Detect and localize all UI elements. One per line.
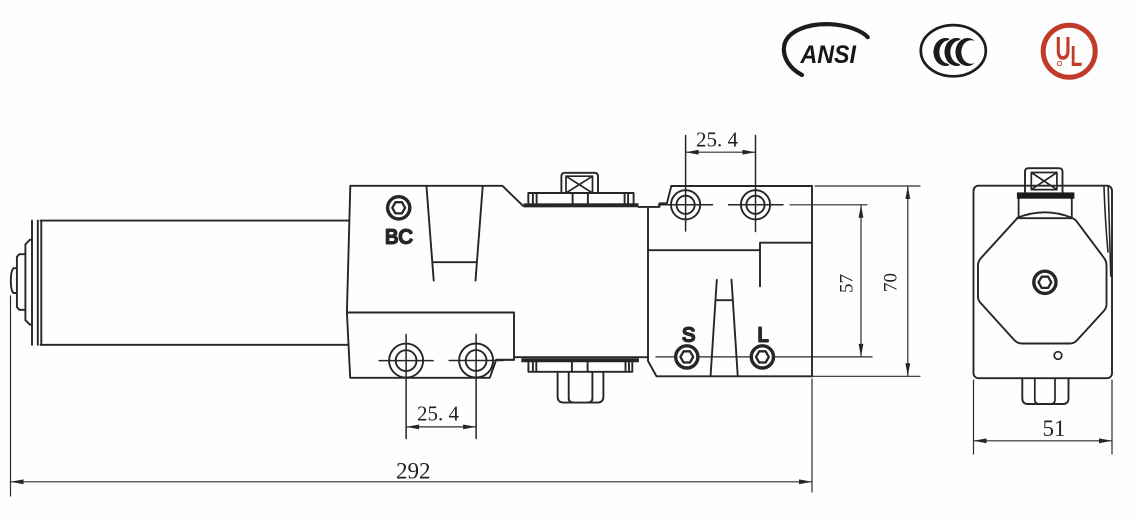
svg-text:ANSI: ANSI bbox=[800, 41, 858, 69]
main housing top edge bbox=[350, 186, 523, 206]
dim 51 line bbox=[974, 440, 1113, 442]
small drain hole bbox=[1054, 352, 1062, 360]
dim 25.4 bottom line bbox=[406, 426, 476, 428]
bottom pinion shaft protrusion bbox=[1022, 378, 1068, 404]
arrowhead 25.4 top right bbox=[743, 150, 756, 155]
L valve screw bbox=[751, 346, 773, 368]
bottom pinion hex bolt bbox=[558, 372, 604, 402]
UL logo circle bbox=[1043, 25, 1095, 77]
bottom hole screw 2 bbox=[449, 334, 503, 438]
end view spindle cap bbox=[1025, 168, 1063, 192]
svg-text:U: U bbox=[1056, 30, 1071, 67]
end view body outline bbox=[974, 186, 1113, 379]
svg-text:25. 4: 25. 4 bbox=[417, 402, 460, 426]
arrowhead 292 right bbox=[799, 479, 812, 484]
end view X-box bbox=[1031, 173, 1057, 190]
S valve screw bbox=[676, 346, 698, 368]
lower-left mounting block bbox=[347, 313, 648, 378]
bottom housing edge bbox=[496, 359, 514, 361]
svg-text:L: L bbox=[758, 325, 769, 347]
arrowhead 57 down bbox=[859, 344, 864, 357]
dim 57 line bbox=[860, 205, 862, 357]
arrowhead 57 up bbox=[859, 205, 864, 218]
arrowhead 70 up bbox=[905, 186, 910, 199]
CCC logo C1 bbox=[933, 38, 953, 66]
main housing left slanted edge bbox=[347, 186, 350, 313]
arrowhead 292 left bbox=[11, 479, 24, 484]
extension line through S and L screw centers bbox=[656, 356, 872, 358]
top arm-shoe pedestal bbox=[561, 173, 598, 193]
svg-text:S: S bbox=[682, 325, 695, 347]
collar below spindle bbox=[1019, 199, 1072, 218]
svg-text:L: L bbox=[1071, 41, 1083, 73]
arrowhead 25.4 bottom left bbox=[406, 425, 419, 430]
svg-text:25. 4: 25. 4 bbox=[696, 128, 739, 152]
arrowhead 25.4 bottom right bbox=[463, 425, 476, 430]
dim 70 line bbox=[907, 186, 909, 376]
dim 292 extension line left bbox=[10, 296, 12, 496]
top ledge step to right block bbox=[639, 186, 813, 207]
end cap step collar bbox=[17, 254, 26, 310]
center pinion hex screw bbox=[1034, 271, 1056, 293]
internal step lines of right block bbox=[649, 243, 812, 287]
left V-notch funnel cutout bbox=[427, 187, 483, 281]
UL registered mark bbox=[1057, 61, 1061, 65]
dim 70 extension bottom bbox=[805, 375, 920, 377]
CCC logo C2 bbox=[944, 38, 964, 66]
dim 51 extension left bbox=[973, 380, 975, 454]
svg-text:57: 57 bbox=[837, 274, 858, 293]
dim 292 line bbox=[11, 481, 813, 483]
svg-text:BC: BC bbox=[385, 227, 413, 249]
arrowhead 70 down bbox=[905, 363, 910, 376]
CCC logo C3 bbox=[955, 38, 975, 66]
right V-notch between S and L bbox=[711, 280, 738, 376]
CCC logo ellipse bbox=[921, 25, 986, 76]
end cap nose with arc bump bbox=[11, 268, 17, 293]
arrowhead 51 right bbox=[1099, 438, 1112, 443]
right block right edge bbox=[811, 186, 813, 376]
end view octagon cam face bbox=[978, 212, 1107, 343]
arrowhead 51 left bbox=[974, 438, 987, 443]
top X-box (spindle square) bbox=[566, 176, 593, 193]
top hole screw 1 bbox=[659, 136, 713, 232]
bottom mounting face thick bar bbox=[521, 358, 639, 362]
right block bottom edge with chamfer bbox=[648, 207, 812, 376]
top hole screw 2 bbox=[729, 136, 784, 232]
svg-text:292: 292 bbox=[396, 459, 431, 484]
cylinder left end cap double seam bbox=[32, 221, 41, 345]
top mounting face thick bar bbox=[524, 203, 639, 207]
end cap flange bbox=[25, 240, 32, 325]
dim 57 extension top bbox=[790, 204, 867, 206]
right edge slot sliver bbox=[1104, 187, 1111, 276]
arrowhead 25.4 top left bbox=[686, 150, 699, 155]
bottom mount plate bbox=[528, 362, 632, 372]
dim 70 extension top bbox=[815, 185, 920, 187]
dim 292 extension line right bbox=[811, 379, 813, 492]
octagon top boss arc bbox=[1017, 212, 1072, 218]
cylinder tube body bbox=[32, 221, 348, 345]
top mount plate bbox=[528, 193, 633, 204]
svg-text:51: 51 bbox=[1043, 416, 1066, 441]
BC adjust screw bbox=[388, 197, 410, 219]
ANSI logo swoosh bbox=[784, 24, 868, 75]
svg-text:70: 70 bbox=[881, 273, 902, 292]
dim 51 extension right bbox=[1111, 380, 1113, 454]
dim 25.4 top line bbox=[686, 151, 756, 153]
black mounting bar bbox=[1017, 192, 1075, 198]
bottom hole screw 1 bbox=[379, 334, 433, 438]
